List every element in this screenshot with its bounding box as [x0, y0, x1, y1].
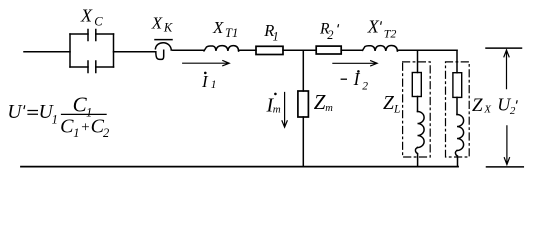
current arrow -I2 — [333, 61, 377, 66]
svg-text:+: + — [80, 120, 90, 136]
inductor ZL coil — [418, 112, 425, 148]
svg-text:2: 2 — [510, 105, 516, 117]
svg-text:U: U — [7, 102, 23, 123]
svg-text:1: 1 — [273, 30, 279, 44]
resistor ZL box — [412, 73, 421, 97]
svg-text:X: X — [151, 13, 163, 32]
label X'T2 — [367, 17, 397, 41]
label XT1 — [212, 18, 238, 40]
wire ZL branch top — [417, 50, 419, 72]
svg-text:1: 1 — [211, 79, 217, 91]
label R2' — [319, 21, 339, 43]
svg-text:Z: Z — [383, 93, 394, 114]
wire XC bottom branch left — [70, 66, 88, 68]
capacitor bank XC left bar — [69, 34, 71, 67]
svg-text:X: X — [367, 17, 380, 37]
wire ZX coil to bus — [455, 151, 457, 167]
svg-text:Z: Z — [314, 90, 326, 114]
label Im with dot — [266, 93, 281, 117]
inductor X'T2 — [363, 45, 398, 50]
node junction — [302, 50, 304, 91]
wire XT2 to load branches — [397, 49, 457, 52]
impedance Zm branch resistor — [298, 91, 309, 117]
voltage arrow up — [504, 50, 509, 89]
svg-text:T1: T1 — [225, 26, 238, 40]
svg-text:X: X — [80, 6, 93, 26]
dashed enclosure ZX — [446, 62, 470, 157]
formula U' = U1 C1/(C1+C2) — [7, 93, 109, 141]
inductor ZX coil — [457, 115, 464, 151]
svg-text:C: C — [60, 115, 74, 137]
wire ZL box to coil — [417, 97, 419, 112]
label I1 with dot — [201, 72, 217, 91]
svg-text:2: 2 — [103, 126, 109, 140]
svg-text:X: X — [212, 18, 224, 37]
dashed enclosure ZL — [403, 62, 431, 157]
label U2' — [497, 95, 517, 118]
label ZL — [383, 93, 400, 115]
svg-text:L: L — [393, 104, 400, 116]
inductor XT1 — [204, 46, 239, 51]
svg-text:m: m — [325, 103, 333, 114]
voltage tick bottom — [487, 166, 524, 168]
label XK — [151, 13, 173, 34]
wire R2' to coil XT2 — [341, 49, 362, 51]
svg-text:K: K — [163, 21, 173, 35]
wire left lead — [24, 51, 70, 53]
capacitor bank XC right bar — [113, 34, 115, 67]
voltage tick top — [486, 47, 522, 49]
label Zm — [314, 90, 333, 114]
capacitor C2 (bottom) — [88, 61, 96, 73]
svg-text:2: 2 — [362, 80, 368, 92]
bottom bus wire — [21, 166, 458, 168]
resistor R2' — [316, 46, 341, 54]
capacitor C1 (top) — [88, 30, 96, 41]
resistor R1 — [256, 46, 283, 54]
reactor XK cup — [156, 50, 164, 59]
svg-text:m: m — [273, 104, 281, 116]
svg-text:2: 2 — [327, 28, 333, 42]
label XC — [80, 6, 103, 29]
wire ZX branch top — [456, 50, 458, 72]
wire XC top branch left — [70, 33, 88, 35]
wire XT1 to R1 — [239, 49, 256, 52]
wire cap to reactor — [114, 51, 156, 53]
svg-text:I: I — [353, 69, 361, 89]
reactor XK loop — [155, 43, 171, 50]
svg-text:X: X — [483, 104, 492, 116]
wire ZL coil to bus — [415, 148, 417, 167]
svg-text:1: 1 — [73, 126, 79, 140]
svg-text:1: 1 — [52, 112, 58, 126]
reactor XK bar — [155, 39, 172, 41]
resistor ZX box — [453, 73, 462, 98]
label ZX — [472, 95, 492, 116]
svg-text:I: I — [201, 72, 209, 91]
svg-text:Z: Z — [472, 95, 483, 116]
wire Zm to bus — [302, 117, 304, 166]
label minus I2 with dot — [341, 69, 369, 92]
current arrow I1 — [183, 61, 230, 66]
wire XC top branch right — [96, 33, 114, 35]
wire R1 to node — [283, 49, 316, 51]
label R1 — [263, 21, 278, 44]
wire XC bottom branch right — [96, 66, 114, 68]
wire reactor to coil XT1 — [171, 49, 204, 51]
wire ZX box to coil — [456, 97, 458, 114]
svg-text:T2: T2 — [384, 27, 397, 41]
svg-text:C: C — [94, 14, 103, 28]
current arrow Im — [282, 93, 287, 128]
voltage arrow down — [504, 126, 509, 165]
